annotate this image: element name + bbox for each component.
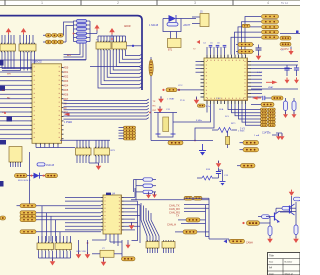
power flag right mid xyxy=(272,133,281,140)
wire bus (top-left loop) xyxy=(0,16,142,90)
net pill T xyxy=(242,217,270,226)
wire bundle U4 right down xyxy=(132,188,141,243)
resistor R26 vertical xyxy=(294,225,298,235)
svg-text:Title: Title xyxy=(269,254,274,258)
off-sheet port b xyxy=(0,86,5,91)
wire fan below J1 xyxy=(2,52,14,69)
junction block xyxy=(7,117,13,122)
label net xyxy=(183,24,191,27)
net pill H xyxy=(224,239,254,244)
sheet border zone strip xyxy=(0,0,300,5)
svg-text:AD1: AD1 xyxy=(64,71,69,74)
resistor R15 xyxy=(168,141,183,145)
wire below U4 xyxy=(92,234,122,246)
wire fan right of U2 xyxy=(251,62,262,98)
power flags below R14 R15 xyxy=(283,111,297,119)
wire header to bus xyxy=(127,45,143,47)
capacitor C16 xyxy=(198,104,211,108)
power flag mid xyxy=(216,161,222,168)
label left red b xyxy=(7,98,11,100)
resistor R22 xyxy=(294,197,301,201)
power flag (C3) xyxy=(256,53,262,60)
wire right edge xyxy=(280,31,300,34)
wire diode loop xyxy=(163,19,196,32)
svg-text:ADDR: ADDR xyxy=(124,25,131,28)
resistor R19 xyxy=(15,174,28,178)
wire fan left of U4 xyxy=(65,198,101,230)
label mid blue b xyxy=(216,98,221,100)
capacitor C15 xyxy=(263,96,271,100)
resistor R1 R2 R3 xyxy=(43,34,64,38)
wire fan U2 to JP1 xyxy=(228,104,261,125)
wire fan above J2 xyxy=(20,35,33,44)
svg-text:AD4: AD4 xyxy=(64,85,69,88)
wire fan diagonal xyxy=(141,203,159,242)
off-sheet port d xyxy=(0,181,4,187)
wire battery stubs xyxy=(171,32,177,39)
resistor R24 xyxy=(258,215,270,219)
wire fan right of U4 xyxy=(124,198,141,230)
capacitor C12 xyxy=(216,168,221,179)
wire crystal to U2 xyxy=(173,104,214,141)
label ALE red xyxy=(67,54,72,57)
power flag (S1) xyxy=(152,192,157,198)
svg-text:U1 89C52: U1 89C52 xyxy=(31,61,42,64)
ground flag tr1 xyxy=(267,236,273,244)
crystal Y2 xyxy=(92,248,122,257)
label rm xyxy=(240,129,271,135)
label caps cluster xyxy=(203,43,221,45)
connector J7 xyxy=(162,240,175,253)
resistor R11 xyxy=(162,88,200,92)
svg-text:AD2: AD2 xyxy=(64,76,69,79)
svg-text:VBAT: VBAT xyxy=(268,86,274,89)
label jp stair b xyxy=(225,116,230,118)
resistor R21 xyxy=(122,240,136,261)
svg-text:ALE: ALE xyxy=(67,54,72,57)
resistor R10 xyxy=(280,42,291,46)
wire fan below U1 xyxy=(36,143,75,147)
wire fan above headers xyxy=(98,36,126,42)
power flag (diode array) xyxy=(90,25,100,34)
svg-text:GND VDD: GND VDD xyxy=(76,251,87,253)
capacitor C2 xyxy=(236,50,254,54)
net label CAN4 xyxy=(167,223,206,227)
net label pill B xyxy=(20,211,101,215)
label u1 right mid xyxy=(64,122,73,124)
label mid blue c xyxy=(196,120,202,122)
net pill pair xyxy=(184,196,202,200)
resistor R20 xyxy=(45,174,58,178)
wire fan below J2 xyxy=(21,52,35,71)
resistor R8 xyxy=(242,24,250,27)
wire vcc rail right xyxy=(262,62,298,69)
svg-text:AD6: AD6 xyxy=(64,93,69,96)
svg-text:1 VBAT: 1 VBAT xyxy=(167,98,175,101)
red mark above U2 xyxy=(193,40,200,51)
transistor Q2 xyxy=(290,204,295,215)
connector J4 xyxy=(9,147,22,168)
svg-text:P1 B: P1 B xyxy=(180,100,185,102)
power flag VCC (conn J1) xyxy=(6,28,12,44)
wire fan left of U1 xyxy=(0,68,30,139)
resistor network RN1 xyxy=(76,147,92,157)
power flag VCC (headers) xyxy=(109,28,115,42)
net labels U1 right (upper pins) xyxy=(64,67,69,115)
off-sheet port e xyxy=(0,216,6,220)
diode D9 small xyxy=(37,163,55,167)
wire fan above U2 (left pins) xyxy=(207,45,226,54)
resistor R17 zigzag xyxy=(197,176,219,180)
net label pill E xyxy=(20,230,101,234)
label addr red xyxy=(124,25,131,28)
power flag bm2 xyxy=(85,240,91,259)
connector J2 xyxy=(19,43,36,53)
label mid blue a xyxy=(180,100,185,102)
resistor R9 xyxy=(280,36,291,40)
label top right corner xyxy=(281,1,288,5)
connector J9 xyxy=(55,242,72,251)
wire long vertical xyxy=(29,152,31,205)
power flag (R10) xyxy=(281,47,294,56)
wire long horizontal xyxy=(131,199,209,201)
svg-text:VCC: VCC xyxy=(178,85,183,87)
header P1 xyxy=(96,41,111,51)
resistor R16z zigzag xyxy=(212,128,245,133)
wire fan above J1 xyxy=(2,35,14,44)
label bm xyxy=(76,251,87,253)
power flag below RN xyxy=(89,163,101,170)
wire stubs left of U2 xyxy=(196,62,201,73)
net pill R1 xyxy=(240,141,259,145)
resistor R23 xyxy=(276,206,296,210)
wire left of diode array xyxy=(74,21,77,42)
wire U1 to bus top xyxy=(90,67,142,69)
svg-text:2: 2 xyxy=(117,1,119,5)
svg-text:+BATT: +BATT xyxy=(183,24,191,27)
svg-text:1 mA: 1 mA xyxy=(254,134,260,137)
resistor network RP2 (sip pills) xyxy=(119,126,136,140)
svg-text:RX: RX xyxy=(153,106,157,108)
svg-text:WR: WR xyxy=(7,74,11,76)
ground flag tr2 xyxy=(293,235,299,244)
resistor R12 xyxy=(272,96,284,100)
svg-text:3 VX: 3 VX xyxy=(216,98,221,100)
label c right xyxy=(257,72,263,74)
svg-text:SDA: SDA xyxy=(219,108,224,111)
wire bundle to bus xyxy=(98,50,142,88)
label P1 blue xyxy=(96,40,99,42)
power flag fan xyxy=(146,192,151,199)
power flag rm xyxy=(276,133,285,140)
wire vbat xyxy=(251,86,298,89)
transistor Q1 xyxy=(270,211,280,223)
wire tr xyxy=(276,208,292,213)
label left red a xyxy=(7,74,11,76)
title block xyxy=(268,253,301,275)
connector J3 xyxy=(192,11,209,27)
connector J8 xyxy=(37,242,54,251)
svg-text:8 MHz: 8 MHz xyxy=(196,120,202,122)
resistor R13 xyxy=(251,102,274,106)
wire right of diode array xyxy=(87,21,91,42)
svg-text:CAN_RX: CAN_RX xyxy=(169,207,180,211)
capacitors C7 C8 with grounds xyxy=(284,65,299,84)
svg-text:1 W05: 1 W05 xyxy=(238,131,245,133)
junction dot xyxy=(4,112,6,114)
label 1N4148 xyxy=(149,24,159,27)
connector J6 xyxy=(146,240,159,253)
net label pill A xyxy=(17,204,102,208)
svg-text:BT1: BT1 xyxy=(168,50,173,52)
label mid rc xyxy=(206,169,229,177)
power flag (U2 area a) xyxy=(158,96,175,103)
wire top of U1 xyxy=(0,59,86,61)
svg-text:TX: TX xyxy=(176,215,179,218)
label jp stair a xyxy=(219,108,224,111)
junction dots red xyxy=(73,33,196,244)
ground (blue) mid xyxy=(199,144,206,156)
net pill R2 xyxy=(240,148,259,152)
diode D7 xyxy=(169,15,177,22)
power arrow right of U1 xyxy=(64,112,70,116)
MCU U2 (QFP) xyxy=(201,55,252,104)
svg-text:0.1uF: 0.1uF xyxy=(257,72,263,74)
power flag VCC (conn J2) xyxy=(21,28,27,44)
power flag tr xyxy=(289,190,295,212)
resistor network RN2 xyxy=(94,147,116,157)
power flag bm3 xyxy=(101,257,107,266)
net pill G xyxy=(175,230,209,234)
wire CAN bundle xyxy=(184,198,229,241)
svg-text:AD5: AD5 xyxy=(64,89,69,92)
svg-text:1 N4148: 1 N4148 xyxy=(149,24,159,27)
svg-text:RD: RD xyxy=(7,98,11,100)
label XTAL xyxy=(178,85,183,87)
IC U1 xyxy=(30,61,64,144)
wire rows to diode array xyxy=(64,22,74,42)
diode array D1-D6 xyxy=(77,20,87,44)
wire bundle U1 to R16 wire xyxy=(64,99,149,119)
resistor R7 (parallel) xyxy=(167,23,178,26)
header JP1 xyxy=(261,108,276,127)
off-sheet port a xyxy=(0,60,4,66)
resistor R16 vertical xyxy=(149,57,153,141)
wire fan below RN boxes xyxy=(77,156,108,163)
capacitor C1 xyxy=(236,43,254,47)
label VCC right xyxy=(280,48,289,51)
power arrow right mid xyxy=(266,81,278,85)
power flag below U2 left xyxy=(194,97,200,105)
svg-text:3: 3 xyxy=(194,1,196,5)
off-sheet port c xyxy=(0,140,6,145)
resistor R4 R5 R6 xyxy=(43,40,66,44)
wire nested corners above U1 xyxy=(64,44,87,60)
label 1mA xyxy=(254,134,260,137)
svg-text:CAN_TX: CAN_TX xyxy=(169,204,180,208)
svg-text:Number: Number xyxy=(285,261,293,264)
resistor network RP1 xyxy=(262,15,279,40)
wire verticals to bottom connectors xyxy=(42,206,60,242)
svg-text:3 V3: 3 V3 xyxy=(240,129,245,131)
svg-text:CAN_H: CAN_H xyxy=(167,223,176,227)
ground flag bottom xyxy=(50,258,56,266)
svg-text:5V 1A: 5V 1A xyxy=(281,1,288,5)
power flag (U2 area b) xyxy=(157,106,170,113)
resistor R25 vertical xyxy=(268,223,272,236)
svg-text:1: 1 xyxy=(41,1,43,5)
power flag bm4 xyxy=(126,240,131,249)
crystal Y1 xyxy=(154,113,177,138)
net pill F xyxy=(176,215,206,222)
wire fan below bottom connectors xyxy=(39,251,71,258)
label small blue xyxy=(18,180,31,182)
net label pill C xyxy=(20,214,101,218)
header P2 xyxy=(112,41,127,51)
svg-text:4: 4 xyxy=(267,1,269,5)
svg-text:AD3: AD3 xyxy=(64,80,69,83)
net label CAN2 xyxy=(169,207,209,211)
jumper block S1 xyxy=(134,178,157,200)
net label CAN3 xyxy=(169,211,206,215)
wire fan to pull-up resistors xyxy=(231,17,261,55)
svg-text:AD0: AD0 xyxy=(64,67,69,70)
svg-text:1 PSEN: 1 PSEN xyxy=(64,122,73,124)
net labels vertical red xyxy=(153,101,157,112)
wire bottom xtal xyxy=(151,140,213,142)
resistor R14 R15 vertical xyxy=(284,98,297,111)
connector J1 xyxy=(0,43,16,53)
label left red d xyxy=(2,112,6,114)
crystal Y3 xyxy=(226,131,270,148)
diode D8 xyxy=(27,173,45,179)
net label CAN1 xyxy=(169,204,209,208)
svg-text:MCU BUS IF: MCU BUS IF xyxy=(18,180,31,182)
label jp stair c xyxy=(231,123,236,125)
power flag right of U4 xyxy=(129,222,135,230)
svg-text:CANH: CANH xyxy=(246,242,253,245)
svg-text:1N4148: 1N4148 xyxy=(46,165,55,167)
svg-text:C14 10u: C14 10u xyxy=(262,133,271,135)
wire above RN boxes xyxy=(60,140,110,148)
power flag bm1 xyxy=(76,240,82,259)
ground mid 2 xyxy=(219,170,226,186)
battery BT1 xyxy=(168,39,182,52)
wire run xyxy=(2,69,33,71)
power arrow into U2 right xyxy=(252,96,261,99)
wire tr2 xyxy=(280,202,297,225)
capacitor C3 body xyxy=(256,45,262,54)
net pill R3 xyxy=(237,164,255,168)
wire fan above bottom connectors xyxy=(39,236,71,243)
IC U4 xyxy=(101,193,124,234)
label left red c xyxy=(2,89,5,92)
net label pill D xyxy=(20,218,101,222)
